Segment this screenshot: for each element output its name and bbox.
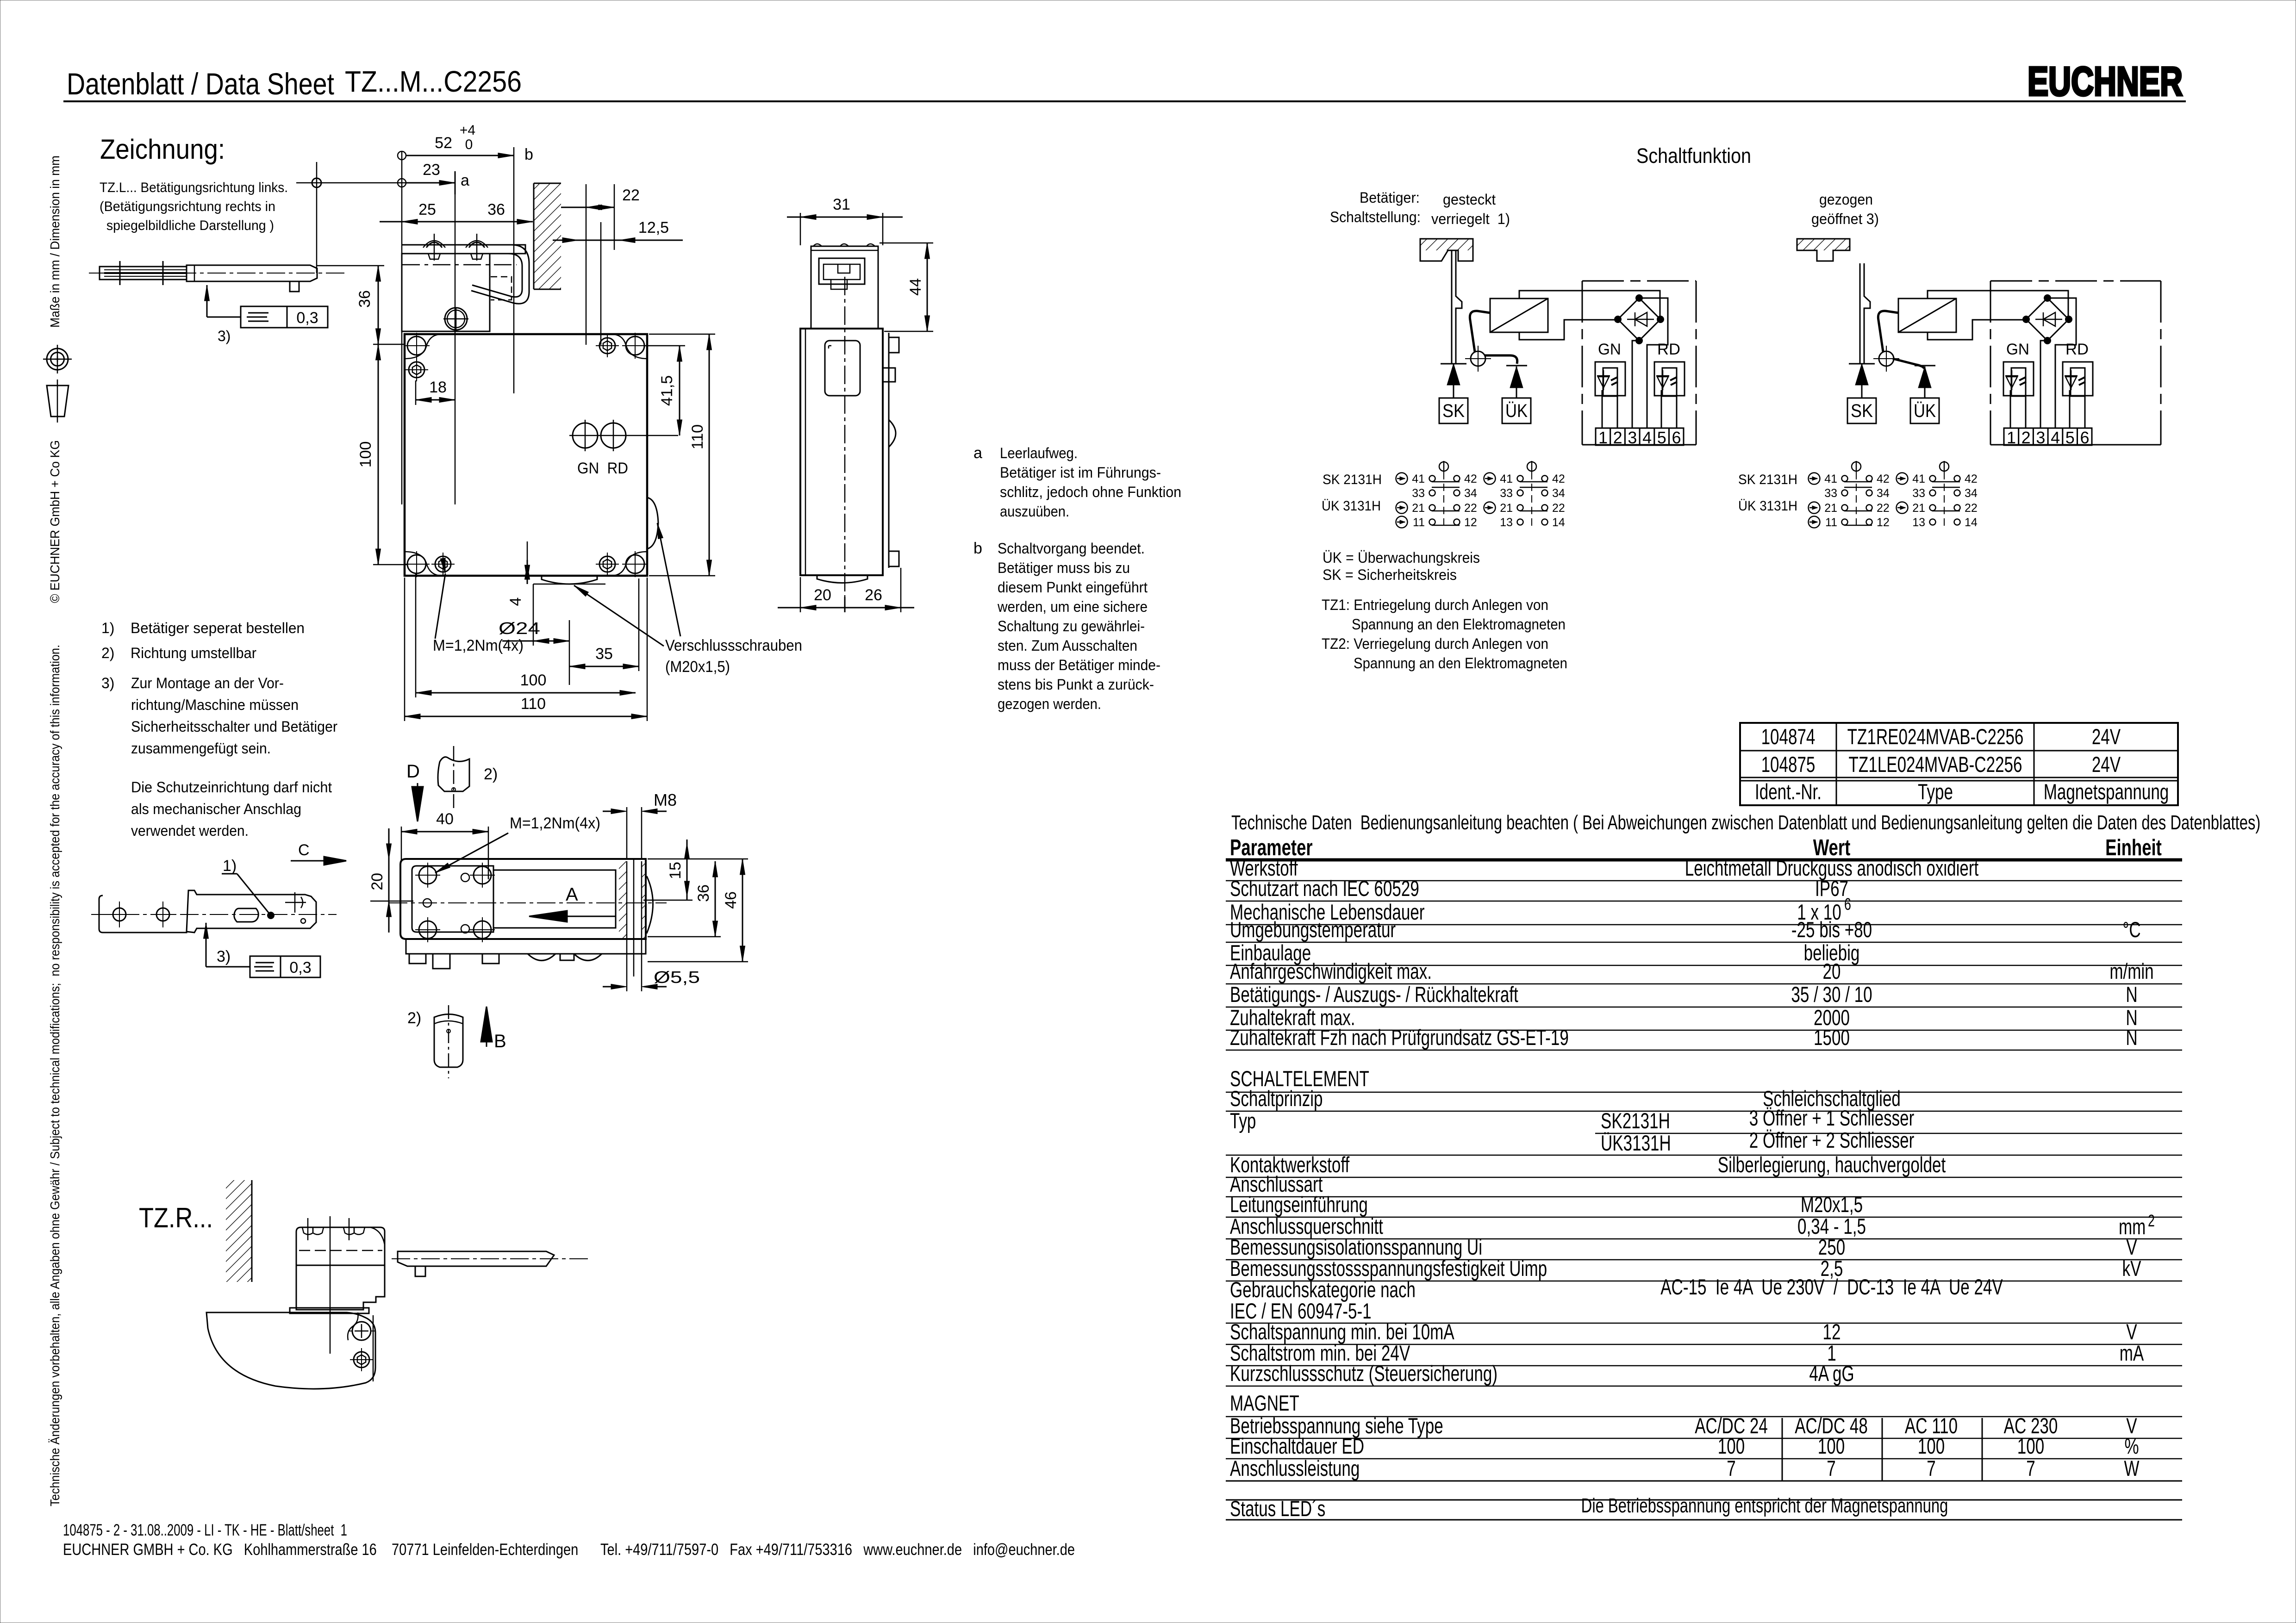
svg-text:AC-15 Ie 4A Ue 230V / DC-1: AC-15 Ie 4A Ue 230V / DC-13 Ie 4A Ue 24V	[1660, 1275, 2003, 1299]
svg-text:Betätigungs- / Auszugs- / Rück: Betätigungs- / Auszugs- / Rückhaltekraft	[1230, 982, 1518, 1007]
svg-text:ÜK = Überwachungskreis: ÜK = Überwachungskreis	[1323, 549, 1480, 566]
dim Ø24	[502, 640, 569, 642]
svg-text:Richtung umstellbar: Richtung umstellbar	[131, 645, 256, 661]
svg-text:M20x1,5: M20x1,5	[1801, 1192, 1863, 1217]
svg-text:22: 22	[1877, 502, 1890, 515]
svg-text:SK 2131H: SK 2131H	[1738, 472, 1797, 487]
svg-text:SK: SK	[1442, 401, 1465, 421]
dashed enclosure	[1990, 280, 2161, 282]
svg-text:Sicherheitsschalter und Betäti: Sicherheitsschalter und Betätiger	[131, 718, 337, 735]
svg-text:100: 100	[1818, 1434, 1845, 1458]
svg-text:GN RD: GN RD	[577, 460, 628, 477]
svg-text:35 / 30 / 10: 35 / 30 / 10	[1791, 982, 1872, 1007]
svg-text:22: 22	[1552, 502, 1565, 515]
svg-text:41: 41	[1912, 473, 1925, 485]
wire top vertex to terminal 4	[2047, 298, 2076, 428]
contact row 21-22	[1842, 505, 1848, 511]
svg-text:Ø24: Ø24	[499, 619, 540, 638]
UK box	[1910, 398, 1939, 423]
svg-text:4: 4	[507, 597, 524, 606]
corner screws (phillips)	[407, 336, 426, 355]
svg-text:diesem Punkt eingeführt: diesem Punkt eingeführt	[998, 579, 1148, 596]
svg-text:34: 34	[1965, 487, 1978, 500]
svg-text:Spannung an den Elektromagnete: Spannung an den Elektromagneten	[1354, 655, 1567, 672]
dim 44	[927, 243, 928, 331]
contact column plunger	[1527, 462, 1536, 471]
svg-text:1): 1)	[101, 620, 114, 636]
svg-text:TZ1: Entriegelung durch Anlege: TZ1: Entriegelung durch Anlegen von	[1322, 597, 1548, 613]
side view head	[811, 246, 878, 329]
svg-text:IP67: IP67	[1815, 876, 1848, 901]
dim 100 bottom	[416, 692, 636, 694]
svg-text:5: 5	[2065, 428, 2075, 447]
svg-text:25: 25	[418, 201, 436, 218]
UK box	[1502, 398, 1531, 423]
centerline actuator top	[91, 914, 337, 915]
svg-text:ÜK 3131H: ÜK 3131H	[1322, 498, 1381, 514]
svg-text:34: 34	[1552, 487, 1565, 500]
svg-text:11: 11	[1413, 516, 1425, 529]
contact column plunger	[1439, 462, 1448, 471]
svg-text:3): 3)	[101, 675, 114, 691]
svg-text:Einschaltdauer ED: Einschaltdauer ED	[1230, 1434, 1364, 1458]
head body	[402, 254, 490, 331]
wall hatch (front view)	[534, 183, 561, 289]
svg-text:104874: 104874	[1761, 724, 1816, 749]
dim 22	[586, 184, 587, 345]
svg-text:100: 100	[2017, 1434, 2044, 1458]
head screws	[426, 243, 442, 248]
svg-text:Schaltprinzip: Schaltprinzip	[1230, 1086, 1323, 1111]
svg-text:%: %	[2124, 1434, 2139, 1458]
svg-text:TZ.L... Betätigungsrichtung li: TZ.L... Betätigungsrichtung links.	[100, 180, 288, 195]
svg-text:3): 3)	[217, 948, 231, 965]
J bracket	[471, 245, 529, 304]
svg-text:TZ1RE024MVAB-C2256: TZ1RE024MVAB-C2256	[1847, 724, 2024, 749]
svg-text:Anschlussleistung: Anschlussleistung	[1230, 1456, 1360, 1480]
status LED row	[1226, 1499, 2182, 1501]
svg-text:14: 14	[1552, 516, 1565, 529]
centerline side view	[844, 277, 846, 597]
svg-text:42: 42	[1877, 473, 1890, 485]
dim 40	[401, 831, 488, 833]
svg-text:W: W	[2124, 1456, 2140, 1480]
svg-text:41: 41	[1824, 473, 1837, 485]
svg-text:110: 110	[521, 695, 546, 713]
svg-text:m/min: m/min	[2109, 959, 2153, 983]
GN LED box	[2003, 362, 2034, 396]
main body square	[405, 334, 647, 576]
svg-text:Ident.-Nr.: Ident.-Nr.	[1755, 779, 1822, 804]
SK arrow	[1453, 364, 1454, 398]
svg-text:1): 1)	[223, 857, 237, 875]
svg-text:TZ...M...C2256: TZ...M...C2256	[345, 65, 522, 98]
first-angle projection symbol: circles	[47, 348, 68, 370]
flatness tolerance box 0,3	[241, 306, 287, 328]
wire solenoid top to bridge right vertex	[1519, 291, 1660, 319]
svg-text:A: A	[566, 884, 578, 905]
svg-text:4A gG: 4A gG	[1809, 1361, 1854, 1386]
SK box	[1847, 398, 1876, 423]
contact row 41-42	[1517, 476, 1523, 482]
side dome	[889, 420, 896, 447]
svg-text:Status LED´s: Status LED´s	[1230, 1496, 1325, 1521]
svg-text:35: 35	[595, 645, 613, 663]
svg-text:2): 2)	[101, 645, 114, 661]
svg-text:EUCHNER: EUCHNER	[2028, 58, 2183, 104]
dim 35	[569, 666, 639, 667]
M20 plug front	[445, 308, 467, 330]
contact row 21-22	[1517, 505, 1523, 511]
diode bridge	[2026, 298, 2069, 341]
TZ.R flange	[290, 1308, 369, 1313]
svg-text:kV: kV	[2122, 1256, 2141, 1281]
svg-text:31: 31	[833, 196, 850, 213]
svg-text:D: D	[406, 761, 420, 782]
svg-text:M=1,2Nm(4x): M=1,2Nm(4x)	[510, 815, 600, 832]
svg-text:42: 42	[1464, 473, 1477, 485]
svg-text:Schaltung zu gewährlei-: Schaltung zu gewährlei-	[998, 618, 1145, 634]
wire solenoid top to bridge right vertex	[1928, 291, 2068, 319]
contact row 41-42	[1930, 476, 1936, 482]
leader from 0,3 box to blade	[207, 317, 241, 318]
svg-text:Typ: Typ	[1230, 1108, 1256, 1133]
top view plate	[400, 859, 646, 939]
contact row 41-42	[1842, 476, 1848, 482]
svg-text:4: 4	[2051, 428, 2060, 447]
svg-text:Die Schutzeinrichtung darf nic: Die Schutzeinrichtung darf nicht	[131, 779, 332, 796]
svg-text:N: N	[2126, 1025, 2137, 1050]
svg-text:34: 34	[1464, 487, 1477, 500]
wire bottom vertex to terminal 3	[2040, 341, 2047, 428]
dim 52 with +4/0	[398, 151, 406, 160]
svg-text:12,5: 12,5	[638, 219, 669, 236]
svg-text:34: 34	[1877, 487, 1890, 500]
svg-text:ÜK3131H: ÜK3131H	[1601, 1131, 1671, 1155]
contact row 33-34	[1842, 490, 1848, 496]
contact row 21-22	[1930, 505, 1936, 511]
svg-text:1: 1	[2007, 428, 2016, 447]
dim 4	[527, 560, 528, 584]
contact row 21-22	[1429, 505, 1435, 511]
svg-text:7: 7	[1827, 1456, 1836, 1480]
svg-text:100: 100	[357, 442, 374, 468]
crosshair target above	[312, 178, 321, 187]
svg-text:6: 6	[1844, 895, 1851, 914]
svg-text:15: 15	[667, 862, 684, 879]
svg-text:2): 2)	[407, 1009, 421, 1027]
svg-text:Umgebungstemperatur: Umgebungstemperatur	[1230, 917, 1396, 942]
svg-text:100: 100	[1718, 1434, 1745, 1458]
actuator top view holes	[113, 908, 126, 921]
svg-text:100: 100	[1918, 1434, 1945, 1458]
svg-text:21: 21	[1824, 502, 1837, 515]
dim 23	[398, 179, 406, 187]
wire solenoid bottom loop to bridge left vertex	[1928, 320, 2026, 340]
key insert top	[438, 757, 469, 791]
GN LED symbol	[1597, 375, 1610, 377]
svg-text:26: 26	[865, 586, 882, 604]
contact column plunger	[1940, 462, 1949, 471]
SK arrow	[1861, 364, 1863, 398]
svg-text:geöffnet 3): geöffnet 3)	[1811, 211, 1879, 227]
svg-text:52: 52	[435, 134, 452, 152]
svg-text:gezogen: gezogen	[1819, 191, 1873, 208]
svg-text:Silberlegierung, hauchvergolde: Silberlegierung, hauchvergoldet	[1718, 1152, 1946, 1177]
svg-text:b: b	[973, 540, 982, 557]
svg-text:a: a	[461, 172, 469, 189]
actuator blade (TZ.L view)	[100, 267, 187, 280]
svg-text:0,3: 0,3	[296, 309, 318, 327]
svg-text:46: 46	[722, 891, 740, 909]
small circle right	[301, 919, 306, 923]
dim 25 / 36	[380, 221, 533, 223]
svg-text:TZ.R...: TZ.R...	[139, 1202, 213, 1233]
wire top vertex to terminal 4	[1639, 298, 1668, 428]
wire bottom vertex to terminal 3	[1632, 341, 1639, 428]
svg-text:2: 2	[2148, 1211, 2155, 1230]
svg-text:42: 42	[1552, 473, 1565, 485]
RD LED symbol	[2065, 375, 2078, 377]
svg-text:0: 0	[465, 137, 473, 152]
svg-text:Zur Montage an der Vor-: Zur Montage an der Vor-	[131, 675, 284, 691]
svg-text:+4: +4	[460, 123, 475, 138]
svg-text:Schaltfunktion: Schaltfunktion	[1636, 144, 1751, 168]
svg-text:als mechanischer Anschlag: als mechanischer Anschlag	[131, 801, 301, 817]
svg-text:21: 21	[1912, 502, 1925, 515]
svg-text:Magnetspannung: Magnetspannung	[2044, 779, 2169, 804]
TZ.R head screws	[302, 1227, 313, 1235]
svg-text:Schaltstellung:: Schaltstellung:	[1330, 209, 1421, 225]
dim 20 26	[778, 607, 914, 609]
dim 31	[787, 217, 903, 218]
svg-text:22: 22	[1965, 502, 1978, 515]
top view screws	[419, 866, 437, 884]
svg-text:42: 42	[1965, 473, 1978, 485]
label window	[825, 341, 860, 396]
svg-text:41: 41	[1500, 473, 1513, 485]
svg-text:12: 12	[1877, 516, 1890, 529]
bridge diode symbol	[1635, 312, 1647, 326]
svg-text:104875: 104875	[1761, 752, 1816, 777]
svg-text:Technische Änderungen vorbehal: Technische Änderungen vorbehalten, alle …	[48, 645, 62, 1506]
svg-text:Schutzart nach IEC 60529: Schutzart nach IEC 60529	[1230, 876, 1419, 901]
terminal strip	[2004, 428, 2092, 445]
TZ.R actuator plate right	[398, 1251, 554, 1266]
svg-text:a: a	[973, 444, 982, 462]
svg-text:23: 23	[423, 161, 440, 179]
svg-text:Anfahrgeschwindigkeit max.: Anfahrgeschwindigkeit max.	[1230, 959, 1432, 983]
svg-text:zusammengefügt sein.: zusammengefügt sein.	[131, 740, 271, 757]
svg-text:110: 110	[689, 424, 706, 449]
corner reliefs	[405, 334, 442, 359]
svg-text:°C: °C	[2122, 917, 2140, 942]
svg-text:M8: M8	[654, 790, 677, 809]
svg-text:18: 18	[429, 379, 447, 396]
svg-text:2: 2	[2021, 428, 2031, 447]
svg-text:Kurzschlussschutz (Steuersiche: Kurzschlussschutz (Steuersicherung)	[1230, 1361, 1497, 1386]
svg-text:Datenblatt / Data Sheet: Datenblatt / Data Sheet	[67, 67, 334, 101]
actuator top view outline	[99, 890, 316, 933]
diode bridge	[1618, 298, 1660, 341]
bridge diode symbol	[2043, 312, 2055, 326]
RD LED symbol	[1656, 375, 1669, 377]
head assembly top plate	[402, 245, 525, 254]
hex screws	[409, 362, 424, 378]
svg-text:2): 2)	[484, 765, 498, 783]
top view inner head	[412, 866, 493, 932]
solenoid coil	[1490, 298, 1548, 332]
UK arrow	[1924, 367, 1926, 398]
svg-text:Zeichnung:: Zeichnung:	[100, 134, 225, 165]
svg-text:ÜK: ÜK	[1505, 401, 1528, 421]
svg-text:24V: 24V	[2092, 752, 2121, 777]
svg-text:20: 20	[1823, 959, 1841, 983]
actuator lug	[290, 281, 299, 292]
contact row 33-34	[1429, 490, 1435, 496]
svg-text:2: 2	[1613, 428, 1622, 447]
svg-text:schlitz, jedoch ohne Funktion: schlitz, jedoch ohne Funktion	[1000, 484, 1181, 500]
ident table frame	[1740, 723, 2178, 805]
svg-text:24V: 24V	[2092, 724, 2121, 749]
hatch right section	[619, 861, 627, 938]
svg-text:RD: RD	[1657, 341, 1680, 358]
svg-text:7: 7	[1727, 1456, 1736, 1480]
contact row 33-34	[1517, 490, 1523, 496]
dim 12,5	[553, 240, 683, 241]
GN LED symbol	[2005, 375, 2018, 377]
GN wires to terminals 1,2	[2010, 390, 2011, 428]
solenoid coil	[1898, 298, 1956, 332]
svg-text:C: C	[298, 841, 310, 859]
svg-text:gezogen werden.: gezogen werden.	[998, 696, 1101, 712]
svg-text:1: 1	[1598, 428, 1608, 447]
svg-text:Zuhaltekraft Fzh nach Prüfgrun: Zuhaltekraft Fzh nach Prüfgrundsatz GS-E…	[1230, 1025, 1569, 1050]
actuation direction symbols	[1396, 473, 1408, 485]
crosshair right	[285, 902, 306, 903]
right side M20 plug	[647, 497, 658, 549]
dim 100 left	[378, 344, 379, 565]
svg-text:auszuüben.: auszuüben.	[1000, 503, 1069, 520]
dim 15	[686, 839, 688, 900]
svg-text:3: 3	[1628, 428, 1637, 447]
svg-text:2 Öffner + 2 Schliesser: 2 Öffner + 2 Schliesser	[1749, 1128, 1915, 1152]
center vertical line	[455, 222, 456, 504]
TZ.R quarter disc	[206, 1312, 375, 1389]
svg-text:(Betätigungsrichtung rechts in: (Betätigungsrichtung rechts in	[100, 199, 275, 214]
dim 36 right	[715, 861, 716, 937]
GN wires to terminals 1,2	[1602, 390, 1603, 428]
svg-text:EUCHNER GMBH + Co. KG Kohlha: EUCHNER GMBH + Co. KG Kohlhammerstraße 1…	[63, 1541, 1075, 1559]
magnet column separators	[1782, 1418, 1783, 1481]
TZ.R wall hatch	[226, 1180, 252, 1282]
svg-text:Betätiger:: Betätiger:	[1360, 189, 1420, 206]
svg-text:Ø5,5: Ø5,5	[654, 968, 700, 987]
side view body	[800, 329, 883, 575]
svg-text:22: 22	[1464, 502, 1477, 515]
0,3 tolerance box lower	[250, 956, 281, 977]
RD LED box	[2063, 362, 2093, 396]
svg-text:5: 5	[1657, 428, 1666, 447]
svg-text:6: 6	[1672, 428, 1681, 447]
svg-text:6: 6	[2080, 428, 2089, 447]
RD wires to terminals 5,6	[1661, 390, 1662, 428]
svg-text:41: 41	[1412, 473, 1425, 485]
dim 110 right	[709, 334, 710, 576]
svg-text:22: 22	[622, 187, 640, 204]
M8 hole column	[626, 861, 628, 972]
contact row 13-14	[1930, 519, 1936, 525]
svg-text:gesteckt: gesteckt	[1443, 191, 1496, 208]
svg-text:stens bis Punkt a zurück-: stens bis Punkt a zurück-	[998, 676, 1154, 693]
svg-text:13: 13	[1912, 516, 1925, 529]
svg-text:4: 4	[1642, 428, 1652, 447]
lever & pivot	[1879, 351, 1894, 366]
svg-text:0,3: 0,3	[289, 959, 311, 976]
contact row 33-34	[1930, 490, 1936, 496]
circuit wall hatch	[1797, 239, 1850, 261]
svg-text:-25 bis +80: -25 bis +80	[1791, 917, 1872, 942]
svg-text:33: 33	[1912, 487, 1925, 500]
LED holes GN RD	[573, 423, 598, 448]
svg-text:Leitungseinführung: Leitungseinführung	[1230, 1192, 1368, 1217]
actuator holder body	[187, 265, 317, 281]
svg-text:1500: 1500	[1814, 1025, 1850, 1050]
svg-text:100: 100	[520, 672, 547, 689]
svg-text:N: N	[2126, 982, 2137, 1007]
dim 46	[742, 859, 743, 962]
svg-text:3: 3	[2036, 428, 2045, 447]
UK arrow	[1516, 367, 1517, 398]
svg-text:36: 36	[695, 884, 712, 902]
svg-text:RD: RD	[2065, 341, 2089, 358]
lever & pivot	[1471, 351, 1485, 366]
svg-text:7: 7	[1927, 1456, 1936, 1480]
circuit wall hatch	[1420, 239, 1473, 261]
dim 110 bottom	[405, 716, 647, 717]
svg-text:© EUCHNER GmbH + Co KG: © EUCHNER GmbH + Co KG	[48, 440, 62, 603]
svg-text:B: B	[494, 1031, 506, 1051]
svg-text:M=1,2Nm(4x): M=1,2Nm(4x)	[433, 637, 524, 654]
actuation direction symbols	[1809, 473, 1820, 485]
svg-text:b: b	[524, 146, 533, 163]
svg-text:Schaltvorgang beendet.: Schaltvorgang beendet.	[998, 540, 1145, 557]
contact row 13-14	[1517, 519, 1523, 525]
svg-text:7: 7	[2026, 1456, 2035, 1480]
dim 20 left of top view	[388, 828, 390, 933]
RD wires to terminals 5,6	[2069, 390, 2071, 428]
svg-text:(M20x1,5): (M20x1,5)	[665, 658, 730, 676]
circuit actuator bar	[1860, 263, 1870, 364]
first-angle projection symbol: cone	[47, 386, 69, 417]
svg-text:41,5: 41,5	[658, 375, 676, 406]
TZ.R body lower	[296, 1265, 385, 1310]
svg-text:muss der Betätiger minde-: muss der Betätiger minde-	[998, 657, 1160, 673]
svg-text:verriegelt 1): verriegelt 1)	[1431, 211, 1510, 227]
svg-text:Leerlaufweg.: Leerlaufweg.	[1000, 445, 1078, 461]
svg-text:richtung/Maschine müssen: richtung/Maschine müssen	[131, 696, 299, 713]
svg-text:spiegelbildliche Darstellung ): spiegelbildliche Darstellung )	[103, 218, 274, 233]
circuit actuator bar	[1452, 250, 1462, 364]
dim 41,5 right	[679, 346, 680, 435]
svg-text:SK: SK	[1851, 401, 1873, 421]
svg-text:3 Öffner + 1 Schliesser: 3 Öffner + 1 Schliesser	[1749, 1106, 1915, 1130]
svg-text:GN: GN	[1598, 341, 1621, 358]
svg-text:14: 14	[1965, 516, 1978, 529]
svg-text:mA: mA	[2120, 1341, 2144, 1365]
svg-text:Technische Daten Bedienungsan: Technische Daten Bedienungsanleitung bea…	[1231, 811, 2260, 834]
bottom M20 plug	[542, 576, 597, 584]
